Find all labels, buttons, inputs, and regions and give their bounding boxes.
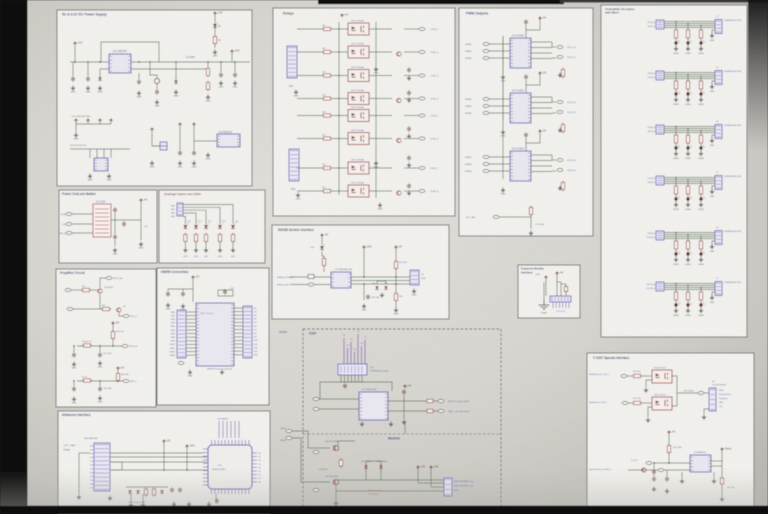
wire bus 3 [110,469,207,471]
QFP top pins [212,440,249,445]
port gate 1 [313,451,319,454]
capacitor C43 [665,476,669,482]
wire [117,370,119,373]
LED D53 [686,251,692,256]
LED D20 [320,244,325,249]
transistor Q3 [397,138,401,142]
capacitor C27 [223,289,227,295]
+5V supply arrow [667,431,670,434]
resistor R84 [686,79,689,91]
resistor R42 [111,330,114,341]
QFP left pins [203,449,208,485]
ground [98,396,102,401]
wire bus 1 [110,456,207,458]
wire [700,144,702,147]
resistor R12 [322,74,333,77]
wire [489,43,510,45]
wire [675,195,677,198]
ground [699,151,703,156]
wires from header [340,375,342,382]
optocoupler OK7 [348,162,369,174]
ground [710,84,714,89]
wire [78,453,80,494]
resistor R52 [394,292,397,303]
resistor R40 [81,288,92,291]
output port row 8 [419,190,425,193]
digital inputs block border [601,5,747,337]
ground [178,161,182,166]
supply +12V arrow (top right) [213,12,216,15]
resistor R73 [720,476,723,486]
junction dot [395,276,397,278]
ground [558,186,562,191]
dark thin line top right [560,0,768,3]
capacitor C23 [98,386,102,392]
+3V3 supply arrow [362,246,365,249]
wire chain drop 1.1 [675,22,677,31]
resistor R10 [322,27,333,30]
output port B [557,111,563,114]
resistor R71 [632,401,643,404]
wire chain drop 2.3 [700,77,702,82]
capacitor C13 [407,155,411,161]
+5V supply arrow [340,14,343,17]
wire fan to outputs [531,96,552,98]
resistor R43 [82,344,93,347]
wire [653,474,655,476]
wire [687,250,689,253]
ground [213,50,217,55]
ground [139,242,143,247]
wire [418,482,444,484]
wire [552,101,556,103]
capacitor C30 [366,294,370,300]
connector J6 [715,231,722,245]
wires connector to IC [186,311,196,313]
wire [551,155,553,160]
resistor R57 [425,399,435,402]
resistor R95 [674,290,677,302]
resistor R30 [184,233,187,244]
capacitor C11 [407,90,411,96]
LED D47 [686,145,692,150]
wire [138,73,140,79]
optocoupler OK4 [348,93,369,105]
left header pins [90,446,94,488]
supply arrow [150,128,153,131]
wire [628,402,632,404]
capacitor C14 [407,183,411,189]
ground [113,248,117,253]
wire bus 4 rails [664,21,715,23]
+5V supply arrow 2 [116,367,119,370]
connector SV2 [289,149,299,181]
supply +12V arrow left [73,42,76,45]
ground 2 [712,479,716,484]
ground [206,95,210,100]
ground [652,487,656,492]
resistor R60 [144,487,147,497]
optocoupler OK5 [348,110,369,122]
secondary rail wire [100,68,208,70]
wire [369,138,392,140]
wire [152,145,167,147]
wire A to connector [351,276,410,278]
wire [404,28,419,30]
wire [214,15,216,48]
capacitor C26 [181,291,185,297]
+5V supply arrow [555,272,558,275]
wire [712,135,715,138]
input port 2 [66,223,72,226]
wire rail 2 [77,380,123,382]
ground [699,97,703,102]
wire [114,213,116,234]
wire [700,195,702,198]
black bar bottom edge [0,506,768,514]
input connector group 6 [656,282,664,291]
wire out 1 [388,400,426,402]
ground [98,361,102,366]
soft vignette bottom area [0,468,768,506]
wire [119,313,123,316]
wire [525,25,527,38]
wire [99,381,101,386]
input port [483,170,489,173]
left port box [308,275,314,279]
+5V arrow mid [403,385,406,388]
left port oval [308,283,314,286]
wire [489,156,510,158]
driver IC U4 [510,93,531,123]
feedback wire loop [101,42,159,62]
wire [404,51,419,53]
wire [675,90,677,93]
ground [407,134,411,139]
wire [369,167,392,169]
wire chain drop 6.3 [700,288,702,293]
resistor R82 [699,28,702,40]
wire [331,115,348,117]
ground [220,370,224,375]
transistor Q12 [642,468,646,472]
wire [292,438,330,482]
wire below IC [215,494,217,503]
wire [369,115,392,117]
LED D54 [699,251,705,256]
wire [404,75,419,77]
wire [71,289,82,291]
ground [501,130,505,135]
wire [712,186,715,189]
ground [710,244,714,249]
output port row 3 [419,74,425,77]
wire [712,81,715,84]
input port 2 [622,402,628,405]
input port ICSP 1 [313,398,319,401]
diode D30 [128,490,131,493]
MOSFET Q10 [333,445,338,451]
power supply block border [57,10,252,186]
ground [192,161,196,166]
wire [489,105,510,107]
main IC U5 big [196,303,234,366]
ground [155,100,159,105]
wire [207,62,209,67]
wire [545,279,547,296]
input port [65,289,71,292]
wire [700,250,702,253]
wire rail [654,462,690,464]
input port M1 [286,430,292,433]
capacitor C41 [652,476,656,482]
diode D31 [136,490,139,493]
capacitor C21 [98,352,102,358]
wire [331,98,348,100]
capacitor bypass [524,74,528,80]
wire to connector [677,392,709,394]
connector SV6 horizontal [550,296,571,302]
resistor R17 [322,189,333,192]
LED D57 [699,302,705,307]
resistor R81 [686,28,689,40]
IC U6 MAX485 [331,272,351,288]
resistor R41 [101,307,112,310]
wire chain drop 5.2 [687,235,689,242]
PWM outputs block border [459,8,593,236]
wire [99,69,101,77]
resistor R3 [206,81,209,92]
wire [319,408,359,410]
inductor L1 [154,78,159,83]
wire [163,443,165,470]
wire [395,249,397,261]
wire chain drop 2.1 [675,73,677,82]
wire analog 5 [183,205,233,225]
ground [529,231,533,236]
wire [395,301,397,308]
input port [483,43,489,46]
ground [206,153,210,158]
ground [374,67,378,72]
input port M2 [286,437,292,440]
resistor R31 [194,233,197,244]
port 2 [658,469,664,472]
wire [130,494,132,503]
header above IC [219,421,239,438]
connector SV8 [94,443,110,491]
prop rev block border [56,269,156,407]
wire [687,144,689,147]
wire [489,170,510,172]
ground [204,248,208,253]
resistor R91 [699,184,702,196]
ground [501,188,505,193]
ground [407,98,411,103]
resistor R94 [699,239,702,251]
wire [150,62,157,78]
ground [380,293,384,298]
resistor R32 [204,233,207,244]
output port A [557,46,563,49]
wire [314,284,331,286]
ground [71,86,75,91]
LED D56 [686,302,692,307]
wire bus 4 rails [664,177,715,179]
wire [112,325,114,331]
right connector SV4 [243,306,252,358]
QFP right pins [252,453,257,482]
wire chain drop 6.2 [687,286,689,293]
ground [219,81,223,86]
wires to resistor network [89,149,91,158]
wire [369,28,392,30]
wire [377,281,386,284]
+5V supply arrow 2 [394,246,397,249]
junction dots [112,345,114,347]
resistor R34 [231,233,234,244]
relays block border [273,8,455,216]
resistor R1 [213,35,216,46]
wire [218,290,233,296]
wire [712,30,715,33]
wire [72,223,93,225]
wire [627,375,632,377]
wire [73,308,102,310]
ground [674,308,678,313]
capacitor C17 [113,234,117,240]
LED D1 power indicator [213,22,218,27]
input connector group 1 [656,20,664,29]
wire B [351,280,410,282]
header pins below [553,302,569,308]
wire [489,163,510,165]
output port row 1 [419,28,425,31]
wire chain drop 2.2 [687,75,689,82]
optocoupler OK8 [348,185,369,197]
supply arrow [192,123,195,126]
diode D2 1N4007 [98,77,101,80]
ground [74,133,78,138]
output port 1 [438,400,444,403]
wire chain drop 4.3 [700,182,702,187]
resistor R83 [674,79,677,91]
ground [362,304,366,309]
wire rail [76,123,111,125]
vertical bus wire [338,22,340,195]
wire [140,202,142,240]
resistor R80 [674,28,677,40]
wire [502,36,504,121]
connector J7 [715,282,722,296]
inner dashed divider [303,433,501,435]
wire [404,138,419,140]
ground [294,90,298,95]
ground [194,248,198,253]
ground [231,248,235,253]
capacitor bypass [524,19,528,25]
wire down to divider [404,422,406,434]
output port row 4 [419,97,425,100]
QFP bottom pins [212,489,249,494]
LED D12 [204,223,209,228]
ground [412,289,416,294]
wire [502,36,504,66]
LED D43 [674,91,680,96]
ground [686,97,690,102]
wire row 1 [297,28,323,30]
transistor Q2 [397,98,401,102]
capacitor C7 [178,150,182,156]
wire [525,80,527,93]
wire [194,140,217,142]
connector SV1 [287,46,297,78]
ground [129,503,133,508]
ground [665,489,669,494]
wire [363,249,365,277]
diode D26 [379,465,382,468]
wire [525,138,527,151]
wire [675,301,677,304]
wire [489,112,510,114]
output port A [557,159,563,162]
output port B [557,169,563,172]
wire chain drop 3.2 [687,129,689,136]
capacitor C36 [178,487,182,493]
ground [686,257,690,262]
wires connector to IC [110,452,203,454]
wire [100,278,106,288]
wire [675,144,677,147]
LED D14 [231,223,236,228]
transistor Q3 [98,289,102,293]
wire [168,288,193,290]
wire row 3 [297,75,323,77]
LED D46 [674,145,680,150]
input port [483,163,489,166]
wire [175,62,177,80]
resistor R85 [699,79,702,91]
transistor Q4 [397,191,401,195]
wire [73,346,75,352]
resistor pullup [561,181,564,192]
wire analog 2 [183,213,196,224]
wire [331,190,348,192]
ground [174,90,178,95]
wire [75,124,77,133]
port in [646,462,652,465]
ground [98,86,102,91]
+5V supply arrow [111,322,114,325]
wire [319,398,359,400]
resistor R61 [152,487,155,497]
driver IC U5 [510,151,531,181]
wire [336,490,444,492]
wire [700,301,702,304]
ground [137,91,141,96]
wire analog 3 [183,210,206,224]
capacitor C4 [155,89,159,95]
output port 2 [438,410,444,413]
RS485 block border [272,225,449,319]
wire [184,242,186,248]
wire [552,46,556,48]
wire [675,250,677,253]
ground [389,422,393,427]
wire [331,75,348,77]
wire [700,39,702,42]
ground [188,370,192,375]
